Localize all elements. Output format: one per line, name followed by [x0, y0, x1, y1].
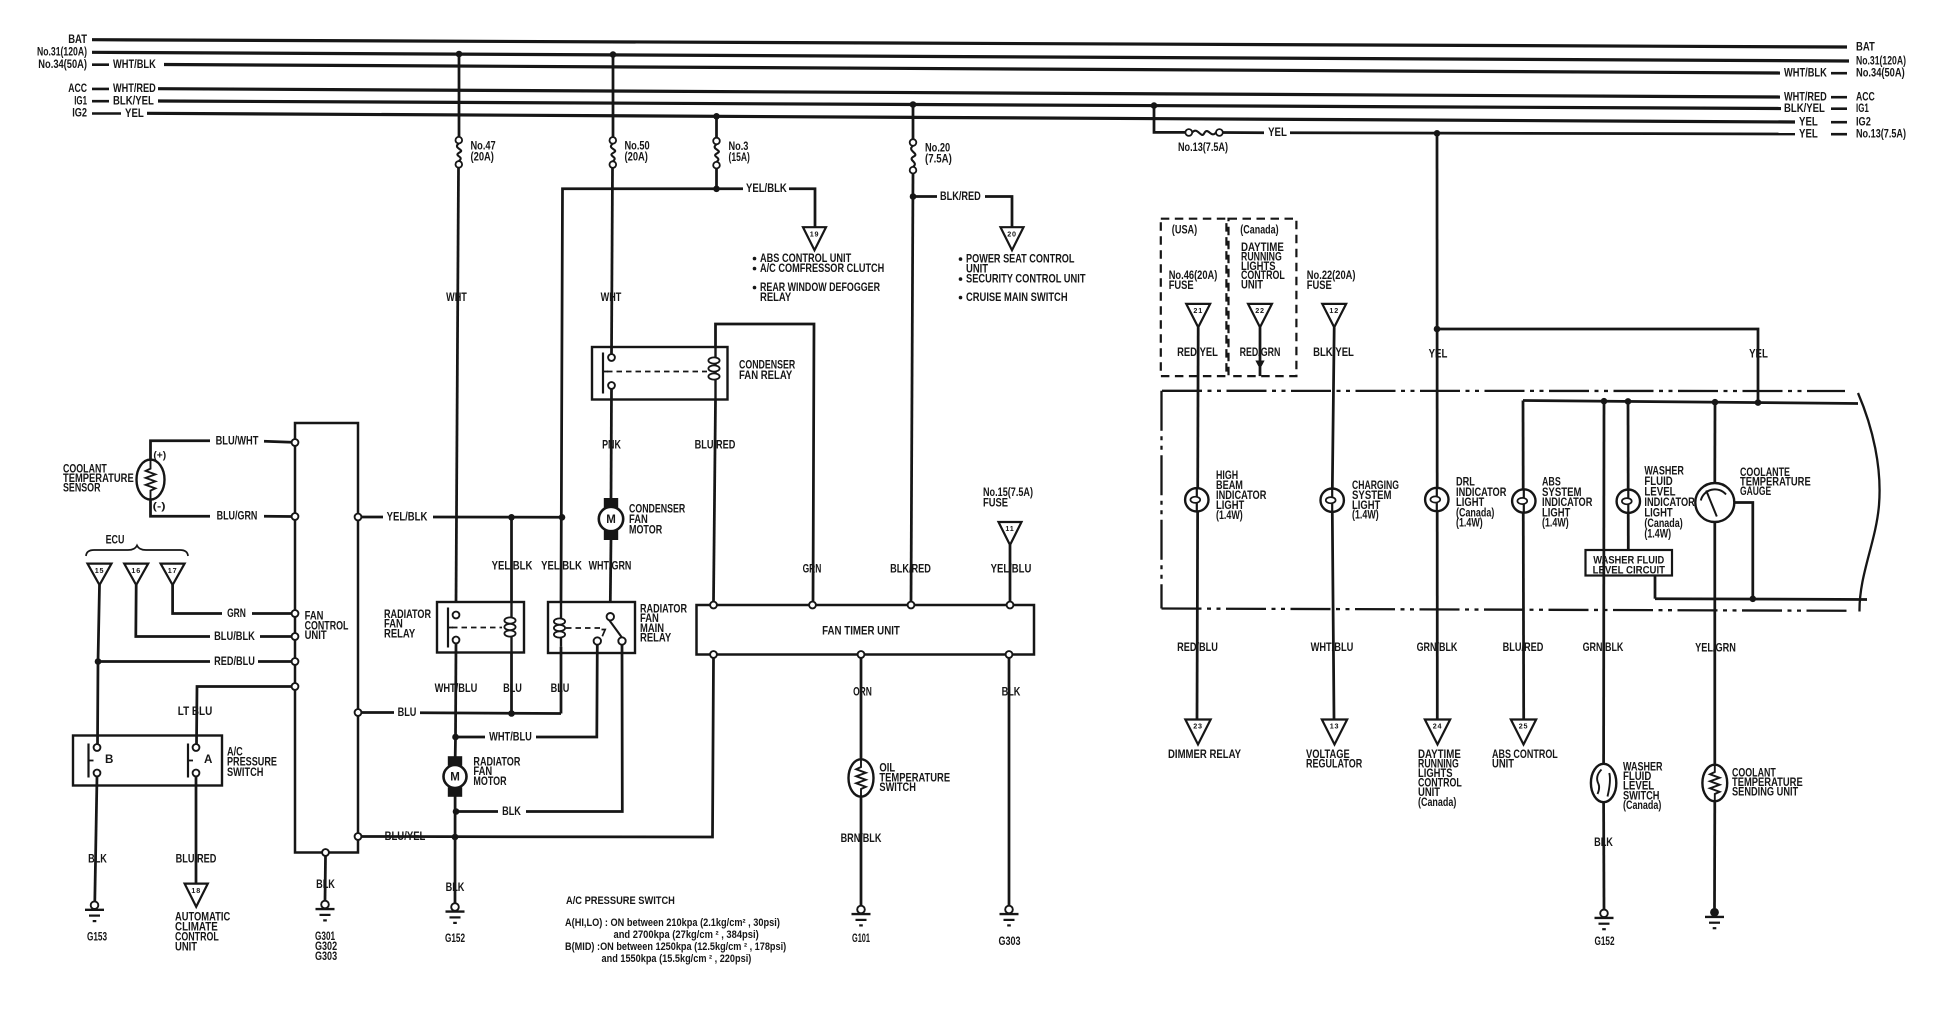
svg-text:A: A: [204, 753, 213, 766]
wire bus IG2 YEL: [147, 113, 1795, 122]
label YEL inline: [1268, 126, 1287, 139]
svg-text:FUSE: FUSE: [1169, 279, 1194, 292]
resistor coolant temperature sending unit: [1702, 765, 1727, 802]
label No.31(120A) (left): [37, 46, 87, 59]
wire gauge bottom down to coolant temperature sending unit: [1713, 522, 1716, 765]
svg-text:(1.4W): (1.4W): [1216, 509, 1243, 522]
label WHT at x=611: [601, 291, 622, 304]
switch contact B: [89, 744, 114, 778]
wire BLU radiator fan relay coil drop: [510, 653, 513, 714]
label WASHER FLUID LEVEL SWITCH (Canada): [1623, 761, 1663, 812]
node junction on No.31 bus at x=613: [610, 51, 617, 58]
svg-text:17: 17: [168, 566, 178, 575]
svg-text:IG1: IG1: [1856, 102, 1869, 115]
label BLK (washer switch): [1594, 836, 1613, 849]
svg-text:BLU/WHT: BLU/WHT: [216, 434, 259, 447]
label CHARGING SYSTEM LIGHT (1.4W): [1352, 479, 1399, 522]
label destinations of connector 19: [753, 252, 885, 304]
wire BLK main relay right throw to motor bottom: [456, 645, 622, 812]
label BLU/RED (A/C switch): [176, 852, 217, 865]
svg-text:M: M: [450, 772, 460, 784]
fuse No.13 (7.5A): [1185, 129, 1222, 136]
border page-continuation curve right: [1858, 393, 1880, 612]
connector 22 (triangle): [1248, 304, 1272, 327]
svg-text:BLK: BLK: [502, 805, 521, 818]
label YEL/BLK (fan control unit): [387, 510, 428, 523]
node junction on IG1 bus at x=913: [910, 101, 917, 108]
pin fan control unit right BLU/YEL: [355, 833, 362, 840]
label YEL at x=1758: [1749, 348, 1768, 361]
brace ECU: [86, 546, 188, 557]
wire BLK contact B to ground G153: [95, 776, 97, 901]
svg-text:No.34(50A): No.34(50A): [38, 58, 87, 71]
label BLK/YEL IG1 (right): [1784, 102, 1869, 115]
svg-text:IG1: IG1: [74, 94, 87, 107]
svg-text:WHT/BLK: WHT/BLK: [113, 58, 156, 71]
connector 15 (triangle): [88, 564, 112, 585]
svg-text:(1.4W): (1.4W): [1644, 528, 1671, 541]
svg-text:BLU/GRN: BLU/GRN: [217, 510, 258, 523]
wire BLU/BLK connector 16 to fan control unit: [136, 585, 292, 637]
label YEL at x=1438: [1429, 348, 1448, 361]
wire YEL/BLK fan control unit to relay coils: [361, 516, 562, 519]
pin fan timer top 4: [1007, 602, 1014, 609]
label GRN/BLK (washer): [1583, 641, 1624, 654]
wire BLU/WHT sensor to fan control unit: [151, 441, 292, 460]
wire BLU main relay coil drop: [560, 647, 563, 714]
ground G303: [998, 906, 1021, 948]
ground G152 (washer fluid level switch): [1594, 910, 1614, 949]
label BLK (A/C switch): [88, 852, 107, 865]
wire GRN condenser relay coil top to fan timer: [716, 324, 815, 602]
svg-text:BLK/RED: BLK/RED: [940, 190, 981, 203]
wire BLU/RED contact A to connector 18: [195, 776, 198, 883]
svg-text:A/C PRESSURE SWITCH: A/C PRESSURE SWITCH: [566, 895, 675, 907]
wire gauge right tap to cluster bottom wire: [1734, 503, 1753, 599]
wire BLK/RED drop from IG1 bus to fan timer unit: [911, 105, 913, 603]
wire ORN fan timer to oil temperature switch: [860, 658, 863, 760]
label WHT/BLU (voltage regulator): [1311, 641, 1354, 654]
svg-text:and 1550kpa (15.5kg/cm ² , 220: and 1550kpa (15.5kg/cm ² , 220psi): [602, 953, 752, 965]
border dash-dot bottom: [1162, 609, 1853, 611]
svg-text:M: M: [606, 514, 616, 526]
wire YEL branch to x=1758: [1437, 329, 1758, 402]
label ECU: [106, 533, 125, 546]
svg-text:23: 23: [1193, 722, 1203, 731]
svg-text:G153: G153: [87, 931, 107, 944]
node junction at (456,811.5): [453, 808, 460, 815]
svg-text:(15A): (15A): [729, 151, 750, 164]
label BLU/GRN: [217, 510, 258, 523]
svg-text:BLK: BLK: [1002, 685, 1021, 698]
svg-text:SWITCH: SWITCH: [227, 766, 264, 779]
relay radiator fan relay coil: [504, 602, 515, 653]
svg-text:UNIT: UNIT: [1492, 757, 1514, 770]
label WASHER FLUID LEVEL CIRCUIT: [1593, 554, 1666, 576]
svg-text:BLU/BLK: BLU/BLK: [214, 630, 255, 643]
wire WHT drop from No.31 bus to radiator fan relay: [456, 54, 459, 602]
wire bus BAT: [92, 40, 1847, 47]
lamp DRL indicator light: [1425, 488, 1448, 511]
pin fan control unit left BLU/GRN: [292, 513, 299, 520]
wire bus No.31(120A): [92, 52, 1849, 61]
svg-text:BLK/RED: BLK/RED: [890, 563, 931, 576]
pin fan control unit left BLU/BLK: [292, 633, 299, 640]
label RADIATOR FAN MAIN RELAY: [640, 602, 687, 644]
wire WHT/BLU main relay to radiator fan motor: [456, 645, 598, 737]
svg-text:and 2700kpa (27kg/cm ² , 384ps: and 2700kpa (27kg/cm ² , 384psi): [614, 929, 760, 941]
resistor oil temperature switch: [849, 759, 874, 796]
node junction at (511.5,517.3): [508, 514, 515, 521]
wire YEL/BLK right run to connector 19: [717, 189, 816, 229]
svg-text:SWITCH: SWITCH: [879, 781, 916, 794]
svg-text:WHT/BLK: WHT/BLK: [1784, 66, 1827, 79]
svg-text:G303: G303: [998, 935, 1021, 948]
svg-text:LT BLU: LT BLU: [178, 705, 213, 718]
label YEL/BLK at fuse No.3: [746, 182, 787, 195]
svg-text:BLK: BLK: [1594, 836, 1613, 849]
node junction YEL at (1437,133.3): [1434, 130, 1441, 137]
svg-text:YEL: YEL: [1799, 127, 1818, 140]
label No.13(7.5A): [1178, 141, 1228, 154]
svg-text:G152: G152: [445, 932, 465, 945]
svg-text:WHT/BLU: WHT/BLU: [435, 682, 478, 695]
connector 11 (triangle): [999, 522, 1022, 545]
svg-text:WHT/BLU: WHT/BLU: [489, 730, 532, 743]
svg-text:REGULATOR: REGULATOR: [1306, 757, 1363, 770]
svg-text:18: 18: [191, 886, 201, 895]
pin fan control unit left RED/BLU: [292, 658, 299, 665]
svg-text:UNIT: UNIT: [305, 629, 327, 642]
relay condenser fan relay coil: [708, 347, 719, 400]
label No.15(7.5A) FUSE: [983, 486, 1033, 510]
svg-text:BLU: BLU: [503, 682, 522, 695]
node junction at (1752.8,598.8): [1750, 596, 1757, 603]
svg-text:BLU: BLU: [551, 682, 570, 695]
label WHT/RED ACC (right): [1784, 90, 1875, 103]
label HIGH BEAM INDICATOR LIGHT (1.4W): [1216, 469, 1267, 522]
svg-text:RED/YEL: RED/YEL: [1177, 346, 1218, 359]
label WHT/BLU (main relay): [489, 730, 532, 743]
label OIL TEMPERATURE SWITCH: [879, 762, 950, 794]
connector 16 (triangle): [124, 564, 148, 585]
label GRN: [803, 563, 822, 576]
svg-text:RELAY: RELAY: [384, 627, 415, 640]
label BLK (fan control unit): [316, 878, 335, 891]
svg-text:GAUGE: GAUGE: [1740, 485, 1771, 498]
svg-text:SECURITY CONTROL UNIT: SECURITY CONTROL UNIT: [966, 272, 1086, 285]
wire WHT drop from No.31 bus to condenser fan relay: [612, 55, 614, 355]
label YEL/BLU: [991, 563, 1032, 576]
pin fan timer bottom 3: [1006, 651, 1013, 658]
svg-text:YEL: YEL: [1268, 126, 1287, 139]
svg-text:BLU/YEL: BLU/YEL: [385, 830, 426, 843]
svg-text:(1.4W): (1.4W): [1456, 517, 1483, 530]
svg-text:BLK: BLK: [316, 878, 335, 891]
ground (coolant temperature sending unit): [1705, 908, 1724, 928]
svg-text:FUSE: FUSE: [1307, 279, 1332, 292]
label YEL IG2 (right): [1799, 115, 1871, 128]
svg-text:No.13(7.5A): No.13(7.5A): [1856, 127, 1906, 140]
svg-text:ACC: ACC: [68, 82, 87, 95]
label DAYTIME RUNNING LIGHTS CONTROL UNIT (Canada): [1418, 748, 1462, 809]
svg-text:BLK/YEL: BLK/YEL: [113, 95, 154, 108]
svg-text:PNK: PNK: [602, 439, 621, 452]
wire YEL drop x=1437 to connector 24 (DRL indicator circuit): [1436, 133, 1439, 718]
svg-text:G303: G303: [315, 950, 338, 963]
relay radiator fan main relay switch: [594, 613, 626, 645]
svg-text:A/C COMFRESSOR CLUTCH: A/C COMFRESSOR CLUTCH: [760, 262, 884, 275]
svg-text:B: B: [105, 753, 113, 766]
svg-text:(Canada): (Canada): [1418, 796, 1456, 809]
svg-text:IG2: IG2: [72, 107, 87, 120]
node junction at (455,837): [452, 834, 459, 841]
node junction BLK/RED at (913,196.5): [910, 193, 917, 200]
svg-text:UNIT: UNIT: [1241, 278, 1263, 291]
label BLU/YEL: [385, 830, 426, 843]
border dash-dot top: [1162, 390, 1845, 393]
svg-text:WHT/BLU: WHT/BLU: [1311, 641, 1354, 654]
svg-text:B(MID) :ON between 1250kpa (12: B(MID) :ON between 1250kpa (12.5kg/cm ² …: [565, 941, 787, 953]
label ABS CONTROL UNIT: [1492, 748, 1558, 771]
pin fan timer top 3: [908, 602, 915, 609]
wire drop from IG2 bus through fuse No.3: [715, 116, 718, 189]
label CONDENSER FAN MOTOR: [629, 502, 686, 536]
label AUTOMATIC CLIMATE CONTROL UNIT: [175, 910, 231, 953]
connector 21 (triangle): [1186, 304, 1210, 327]
wire cluster bottom wire: [1655, 597, 1867, 601]
label No.47 (20A): [471, 140, 496, 164]
label DAYTIME RUNNING LIGHTS CONTROL UNIT: [1241, 241, 1285, 291]
svg-text:(1.4W): (1.4W): [1542, 517, 1569, 530]
label (Canada): [1240, 223, 1278, 236]
label COOLANT TEMPERATURE SENSOR: [63, 462, 134, 494]
svg-text:MOTOR: MOTOR: [473, 775, 507, 788]
svg-text:No.31(120A): No.31(120A): [37, 46, 87, 59]
node junction on IG2 bus at x=716.5: [713, 113, 720, 120]
label BAT (left): [68, 33, 87, 46]
label No.50 (20A): [625, 140, 650, 164]
label (USA): [1172, 223, 1198, 236]
svg-text:ECU: ECU: [106, 533, 125, 546]
svg-text:(20A): (20A): [625, 151, 649, 164]
lamp ABS system indicator light: [1512, 489, 1535, 512]
connector 25 (triangle): [1511, 720, 1536, 745]
pin fan timer bottom 1: [710, 651, 717, 658]
wire PNK condenser relay to condenser fan motor: [610, 389, 613, 499]
svg-text:FAN RELAY: FAN RELAY: [739, 369, 793, 382]
wire BLK/YEL from connector 12 to connector 13 (charging circuit): [1332, 327, 1334, 718]
wire YEL lamp supply top: [1523, 401, 1858, 404]
svg-text:GRN/BLK: GRN/BLK: [1417, 641, 1458, 654]
svg-text:(USA): (USA): [1172, 223, 1198, 236]
wire bus No.34(50A) WHT/BLK: [164, 65, 1780, 74]
relay radiator fan relay dashed link: [452, 627, 502, 629]
pin fan timer bottom 2: [858, 651, 865, 658]
label DRL INDICATOR LIGHT (Canada) (1.4W): [1456, 476, 1507, 530]
label destinations of connector 20: [959, 252, 1086, 304]
svg-text:(Canada): (Canada): [1623, 799, 1661, 812]
node junction at (455.5,737): [452, 734, 459, 741]
svg-text:G101: G101: [852, 932, 870, 945]
svg-text:BRN/BLK: BRN/BLK: [841, 832, 882, 845]
wire BLU fan control unit to relay coils: [361, 713, 561, 714]
node junction at (1758,402.6): [1755, 399, 1762, 406]
label BLK/RED at fuse No.20: [940, 190, 981, 203]
svg-text:WHT/GRN: WHT/GRN: [589, 560, 632, 573]
svg-text:WHT: WHT: [601, 291, 622, 304]
label BLK (motor): [446, 881, 465, 894]
svg-text:13: 13: [1330, 722, 1340, 731]
label LT BLU: [178, 705, 213, 718]
node junction YEL at (1437,329): [1434, 326, 1441, 333]
svg-text:BLU: BLU: [398, 706, 417, 719]
wire RED/GRN from connector 22: [1259, 327, 1262, 376]
wire WHT/GRN condenser fan motor to main relay: [609, 540, 612, 602]
svg-text:ORN: ORN: [853, 685, 872, 698]
svg-text:YEL/BLK: YEL/BLK: [541, 560, 582, 573]
svg-text:21: 21: [1193, 306, 1203, 315]
svg-text:BAT: BAT: [68, 33, 87, 46]
pin fan control unit right YEL/BLK: [355, 514, 362, 521]
label YEL/BLK (main relay coil): [541, 560, 582, 573]
svg-text:24: 24: [1433, 722, 1443, 731]
label No.34(50A) WHT/BLK (left): [38, 58, 156, 71]
wire GRN/BLK branch x=1604 down to washer fluid level switch: [1602, 401, 1605, 764]
node junction at (511.5,713.5): [508, 710, 515, 717]
node junction at (98,661.5): [95, 658, 102, 665]
wire BLU/RED condenser relay coil bottom to fan timer: [714, 400, 716, 602]
relay radiator fan main relay dashed link: [566, 627, 602, 629]
label FAN TIMER UNIT: [822, 625, 900, 638]
svg-text:GRN: GRN: [803, 563, 822, 576]
label IG2 YEL (left): [72, 107, 144, 120]
label No.3 (15A): [729, 140, 750, 164]
label BLU (main relay): [551, 682, 570, 695]
relay radiator fan relay box: [437, 602, 524, 653]
label ACC WHT/RED (left): [68, 82, 156, 95]
svg-text:A(HI,LO) : ON between 210kpa (: A(HI,LO) : ON between 210kpa (2.1kg/cm² …: [565, 917, 780, 929]
label RED/GRN: [1240, 346, 1281, 359]
svg-text:WHT: WHT: [446, 291, 467, 304]
wire YEL from fuse No.13 to right edge: [1223, 133, 1795, 135]
relay condenser fan relay box: [592, 347, 728, 400]
pin fan control unit left BLU/WHT: [292, 439, 299, 446]
label BLU (fan control unit): [398, 706, 417, 719]
box fan control unit: [295, 423, 358, 853]
label YEL/GRN: [1695, 642, 1736, 655]
pin fan control unit left LT BLU: [292, 683, 299, 690]
box (Canada) dashed: [1229, 219, 1297, 376]
box washer fluid level circuit: [1586, 550, 1673, 576]
wire BRN/BLK oil temperature switch to ground: [860, 797, 863, 906]
label WASHER FLUID LEVEL INDICATOR LIGHT (Canada) (1.4W): [1644, 465, 1695, 541]
label FAN CONTROL UNIT: [305, 610, 349, 643]
pin fan control unit bottom BLK: [322, 849, 329, 856]
label ORN: [853, 685, 872, 698]
wire BLK fan timer to ground G303: [1008, 658, 1011, 906]
pin fan control unit left GRN: [292, 610, 299, 617]
wire sending unit to ground: [1713, 801, 1716, 908]
svg-text:BLK/YEL: BLK/YEL: [1313, 346, 1354, 359]
wire washer lamp branch x=1628 to washer fluid level circuit box: [1627, 401, 1630, 550]
lamp washer fluid level indicator light: [1617, 490, 1640, 513]
wire BLU/GRN sensor to fan control unit: [151, 500, 292, 517]
svg-text:25: 25: [1519, 722, 1529, 731]
wire RED/BLU connector 15 down to A/C pressure switch: [98, 585, 100, 744]
svg-text:SENSOR: SENSOR: [63, 482, 101, 495]
svg-text:DIMMER RELAY: DIMMER RELAY: [1168, 748, 1241, 761]
pin fan timer top 2: [809, 602, 816, 609]
wire ABS lamp branch x=1523 down to connector 25: [1522, 401, 1525, 719]
connector 13 (triangle): [1322, 720, 1347, 745]
wire RED/BLU to fan control unit: [98, 660, 292, 663]
svg-text:YEL/BLU: YEL/BLU: [991, 563, 1032, 576]
label DIMMER RELAY: [1168, 748, 1241, 761]
wire RED/YEL from connector 21 to connector 23 (high beam circuit): [1197, 327, 1198, 718]
label A/C pressure switch specs: [565, 917, 787, 965]
svg-text:(Canada): (Canada): [1240, 223, 1278, 236]
fuse No.47 (20A): [456, 137, 463, 168]
svg-text:YEL: YEL: [125, 107, 144, 120]
wire BLK/RED to connector 20: [913, 197, 1012, 230]
pin fan timer top 1: [710, 602, 717, 609]
label RED/YEL: [1177, 346, 1218, 359]
switch washer fluid level switch: [1591, 764, 1616, 802]
fuse No.50 (20A): [610, 137, 617, 168]
label WHT/GRN: [589, 560, 632, 573]
svg-text:YEL/BLK: YEL/BLK: [746, 182, 787, 195]
relay radiator fan main relay box: [548, 602, 635, 653]
box (USA) dashed: [1161, 219, 1227, 376]
label No.20 (7.5A): [925, 142, 952, 166]
svg-text:LEVEL CIRCUIT: LEVEL CIRCUIT: [1593, 564, 1666, 576]
node junction on IG1 bus at x=1154: [1151, 102, 1158, 109]
svg-text:22: 22: [1255, 306, 1265, 315]
svg-text:16: 16: [131, 566, 141, 575]
svg-text:CRUISE MAIN SWITCH: CRUISE MAIN SWITCH: [966, 291, 1068, 304]
label BLK/RED (fan timer): [890, 563, 931, 576]
svg-text:15: 15: [95, 566, 105, 575]
switch contact A: [188, 744, 213, 778]
wire YEL/BLU from connector 11 to fan timer unit: [1009, 545, 1012, 602]
label COOLANTE TEMPERATURE GAUGE: [1740, 466, 1811, 498]
node junction YEL/BLK at (716.5,188.8): [713, 186, 720, 193]
wire BLK motor to ground G152: [454, 796, 457, 903]
svg-text:FAN TIMER UNIT: FAN TIMER UNIT: [822, 625, 900, 638]
label RED/BLU: [1177, 641, 1218, 654]
relay radiator fan main relay coil: [554, 602, 565, 647]
ground G301 G302 G303: [315, 901, 338, 963]
connector 18 (triangle): [185, 884, 208, 907]
label IG1 BLK/YEL (left): [74, 94, 154, 107]
label ABS SYSTEM INDICATOR LIGHT (1.4W): [1542, 476, 1593, 530]
label GRN/BLK: [1417, 641, 1458, 654]
motor condenser fan motor: [599, 499, 623, 540]
svg-text:BLK: BLK: [88, 852, 107, 865]
svg-text:19: 19: [810, 229, 820, 238]
wire WHT/BLU radiator fan relay to motor: [454, 643, 457, 737]
svg-text:YEL/BLK: YEL/BLK: [387, 510, 428, 523]
label BLU/BLK: [214, 630, 255, 643]
ground G101: [852, 906, 871, 945]
label RED/BLU (ECU): [214, 655, 255, 668]
node junction at (1715,402.2): [1712, 399, 1719, 406]
svg-text:BLU/RED: BLU/RED: [1503, 641, 1544, 654]
label No.46(20A) FUSE: [1169, 269, 1218, 292]
svg-text:RED/BLU: RED/BLU: [1177, 641, 1218, 654]
svg-text:12: 12: [1329, 306, 1339, 315]
